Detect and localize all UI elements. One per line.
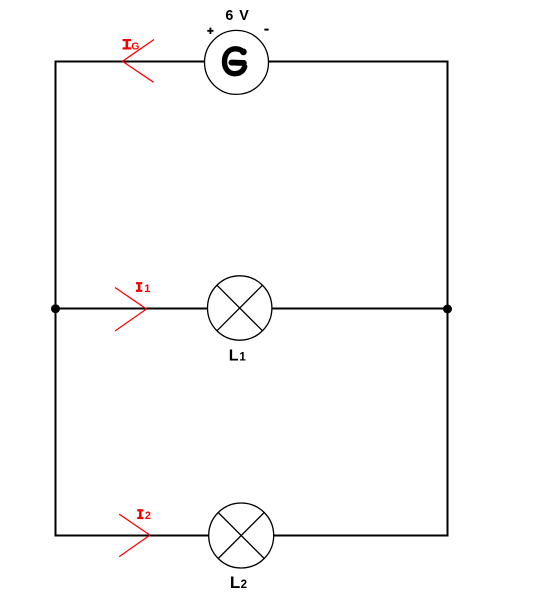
label I2	[137, 510, 143, 519]
wire top-left segment	[55, 61, 206, 63]
wire top-right segment	[269, 61, 449, 63]
arrow IG	[123, 40, 155, 83]
generator G1 circle	[205, 30, 269, 94]
svg-text:1: 1	[144, 283, 150, 295]
generator G letter terminal blob	[240, 49, 247, 56]
generator G1 letter G	[224, 49, 244, 74]
wire middle-left segment	[55, 308, 208, 310]
svg-text:1: 1	[239, 352, 246, 364]
lamp L2	[209, 503, 274, 568]
svg-text:V: V	[239, 8, 249, 24]
label L1	[229, 348, 247, 365]
minus sign	[264, 29, 268, 31]
arrow I2	[119, 514, 150, 556]
plus sign	[207, 28, 213, 34]
arrow I1	[115, 288, 147, 332]
lamp L1	[208, 276, 272, 340]
label IG	[123, 40, 132, 49]
label L2	[230, 573, 247, 592]
svg-text:L: L	[229, 348, 239, 365]
svg-text:G: G	[131, 40, 139, 52]
svg-text:L: L	[230, 573, 240, 592]
svg-text:2: 2	[145, 510, 151, 522]
wire bottom-right segment	[274, 535, 449, 537]
svg-text:2: 2	[241, 579, 247, 591]
node A (left junction dot)	[51, 304, 60, 313]
wire left vertical	[55, 61, 57, 537]
wire right vertical	[447, 61, 449, 537]
label I1	[136, 283, 142, 292]
svg-text:6: 6	[225, 8, 233, 24]
wire middle-right segment	[272, 308, 449, 310]
wire bottom-left segment	[55, 535, 209, 537]
node B (right junction dot)	[443, 305, 452, 314]
